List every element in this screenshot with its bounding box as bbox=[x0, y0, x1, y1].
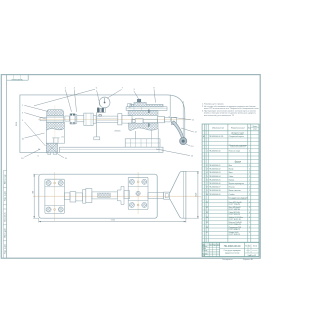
svg-text:ПК-0303.00.06: ПК-0303.00.06 bbox=[209, 183, 220, 185]
svg-text:1: 1 bbox=[249, 183, 250, 185]
svg-text:2: 2 bbox=[249, 176, 250, 178]
svg-text:Планка: Планка bbox=[229, 187, 235, 189]
svg-text:980: 980 bbox=[32, 191, 34, 194]
svg-text:Ø420: Ø420 bbox=[195, 193, 197, 197]
svg-text:1: 1 bbox=[249, 190, 250, 192]
svg-text:Плита в сборе: Плита в сборе bbox=[229, 151, 240, 153]
svg-text:4: 4 bbox=[249, 212, 250, 214]
svg-text:5: 5 bbox=[207, 176, 208, 178]
svg-text:Гайка: Гайка bbox=[229, 175, 233, 178]
svg-text:15: 15 bbox=[206, 222, 208, 224]
svg-text:Дата: Дата bbox=[217, 244, 220, 246]
svg-text:1: 1 bbox=[249, 222, 250, 224]
svg-text:12: 12 bbox=[206, 207, 208, 209]
svg-text:Сборочный чертеж: Сборочный чертеж bbox=[229, 135, 245, 138]
svg-text:Подп. и дата: Подп. и дата bbox=[5, 191, 7, 201]
svg-text:ГОСТ 8338-75: ГОСТ 8338-75 bbox=[229, 229, 240, 231]
svg-text:ПК-0303.00.05: ПК-0303.00.05 bbox=[209, 179, 220, 181]
svg-text:Подп. и дата: Подп. и дата bbox=[5, 244, 7, 254]
svg-text:8: 8 bbox=[207, 187, 208, 189]
svg-text:ПК-0303.00.00: ПК-0303.00.00 bbox=[224, 245, 241, 248]
svg-text:1: 1 bbox=[207, 151, 208, 153]
svg-text:3: 3 bbox=[207, 169, 208, 171]
svg-text:ПК-0303.00.00 СБ: ПК-0303.00.00 СБ bbox=[209, 136, 224, 138]
svg-text:1: 1 bbox=[249, 179, 250, 181]
svg-text:чание: чание bbox=[253, 129, 257, 131]
svg-text:Инв.№ подл.: Инв.№ подл. bbox=[4, 173, 7, 184]
svg-text:150: 150 bbox=[61, 136, 64, 138]
svg-text:10: 10 bbox=[206, 194, 208, 196]
svg-text:ГОСТ 1491-80: ГОСТ 1491-80 bbox=[229, 209, 240, 211]
svg-text:2: 2 bbox=[249, 172, 250, 174]
svg-text:40: 40 bbox=[129, 107, 131, 109]
svg-text:7: 7 bbox=[207, 183, 208, 185]
svg-text:ПК-0303.00.04: ПК-0303.00.04 bbox=[209, 176, 220, 178]
svg-text:ПК-0303.00.00: ПК-0303.00.00 bbox=[12, 78, 23, 80]
svg-text:карданных валов: карданных валов bbox=[225, 252, 240, 254]
svg-text:Копировал: Копировал bbox=[222, 259, 233, 261]
svg-text:11: 11 bbox=[206, 202, 208, 204]
svg-text:ПК-0303.00.01: ПК-0303.00.01 bbox=[209, 165, 220, 167]
svg-text:1: 1 bbox=[249, 151, 250, 153]
svg-text:2: 2 bbox=[249, 227, 250, 229]
svg-text:4: 4 bbox=[207, 172, 208, 174]
svg-text:13: 13 bbox=[206, 212, 208, 214]
svg-text:~1500: ~1500 bbox=[110, 220, 115, 222]
svg-text:Кол.: Кол. bbox=[248, 127, 252, 129]
svg-text:2: 2 bbox=[249, 232, 250, 234]
svg-text:15: 15 bbox=[38, 155, 40, 157]
svg-text:ГОСТ 3128-70: ГОСТ 3128-70 bbox=[229, 234, 240, 236]
svg-text:ПК-0303.00.02: ПК-0303.00.02 bbox=[209, 169, 220, 171]
svg-text:Т.контр.: Т.контр. bbox=[203, 250, 209, 252]
svg-text:Формат A1: Формат A1 bbox=[243, 258, 254, 261]
svg-text:14: 14 bbox=[206, 217, 208, 219]
svg-text:ПК-0303.00.07: ПК-0303.00.07 bbox=[209, 187, 220, 189]
svg-text:Ø520: Ø520 bbox=[16, 122, 18, 126]
svg-text:Ø105h6: Ø105h6 bbox=[114, 130, 120, 132]
svg-text:ГОСТ 11371-78: ГОСТ 11371-78 bbox=[229, 219, 241, 221]
svg-text:1: 1 bbox=[249, 165, 250, 167]
svg-text:ПК-0303.01.00: ПК-0303.01.00 bbox=[209, 151, 220, 153]
svg-text:ПК-0303.00.08: ПК-0303.00.08 bbox=[209, 190, 220, 192]
svg-text:4: 4 bbox=[249, 217, 250, 219]
svg-text:16: 16 bbox=[206, 227, 208, 229]
svg-text:Валик: Валик bbox=[229, 169, 234, 171]
svg-text:Обозначение: Обозначение bbox=[212, 127, 225, 129]
svg-text:17: 17 bbox=[206, 232, 208, 234]
svg-text:2: 2 bbox=[207, 165, 208, 167]
svg-text:9: 9 bbox=[207, 190, 208, 192]
svg-text:ГОСТ 23360-78: ГОСТ 23360-78 bbox=[229, 224, 241, 226]
svg-text:4: 4 bbox=[249, 202, 250, 204]
svg-text:Приме-: Приме- bbox=[253, 126, 258, 128]
svg-text:Втулка переходная: Втулка переходная bbox=[229, 183, 244, 185]
svg-text:мых значений, установленных ТУ: мых значений, установленных ТУ. bbox=[204, 114, 235, 117]
svg-text:Пров.: Пров. bbox=[203, 248, 207, 250]
svg-text:Взам.инв.№: Взам.инв.№ bbox=[4, 212, 7, 222]
svg-text:ГОСТ 7798-70: ГОСТ 7798-70 bbox=[229, 204, 240, 206]
svg-text:Листов: Листов bbox=[253, 245, 258, 247]
svg-text:Вилка сменная: Вилка сменная bbox=[229, 190, 241, 192]
svg-text:1: 1 bbox=[249, 194, 250, 196]
svg-text:Разраб.: Разраб. bbox=[203, 246, 209, 248]
svg-text:Вал: Вал bbox=[229, 165, 232, 167]
svg-text:Инв.№ дубл.: Инв.№ дубл. bbox=[4, 227, 7, 238]
svg-text:Корпус: Корпус bbox=[229, 179, 235, 181]
svg-text:Н.контр.: Н.контр. bbox=[203, 253, 209, 255]
svg-text:ПК-0303.00.03: ПК-0303.00.03 bbox=[209, 172, 220, 174]
svg-text:Винт: Винт bbox=[229, 172, 233, 174]
svg-text:6: 6 bbox=[207, 179, 208, 181]
svg-text:1: 1 bbox=[249, 169, 250, 171]
svg-text:2: 2 bbox=[249, 207, 250, 209]
svg-text:ПК-0303.00.09: ПК-0303.00.09 bbox=[209, 194, 220, 196]
svg-text:Лист: Лист bbox=[248, 245, 251, 247]
svg-text:Наименование: Наименование bbox=[231, 127, 246, 129]
svg-text:Стойка: Стойка bbox=[229, 193, 235, 196]
svg-text:1: 1 bbox=[249, 187, 250, 189]
svg-text:ГОСТ 5915-70: ГОСТ 5915-70 bbox=[229, 214, 240, 216]
